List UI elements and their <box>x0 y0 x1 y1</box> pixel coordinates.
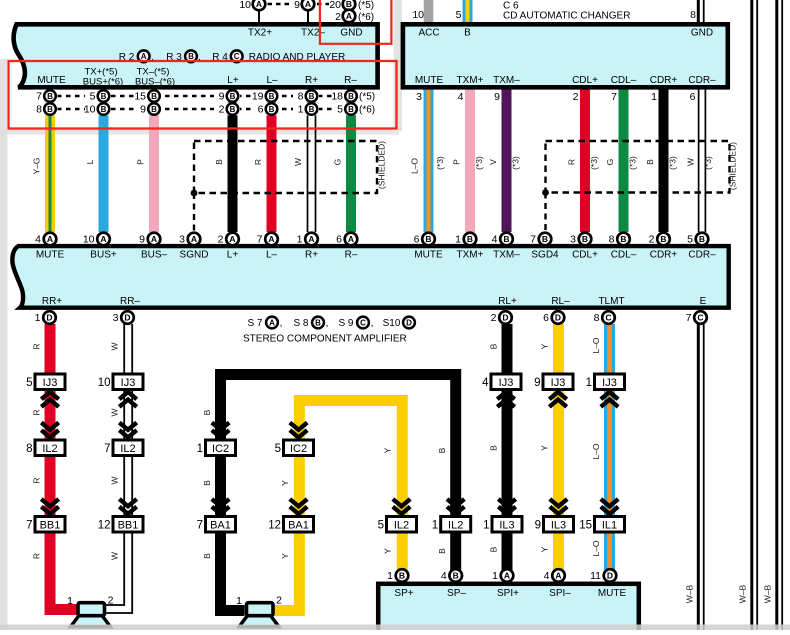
connector 15 IL1 <box>595 517 625 533</box>
svg-text:4: 4 <box>544 570 550 582</box>
svg-text:D: D <box>124 313 130 323</box>
svg-text:B: B <box>309 92 315 101</box>
svg-text:3: 3 <box>570 234 576 246</box>
wire B CDR+ <box>659 88 669 232</box>
junction arrows above row-C x401.5 <box>393 507 410 514</box>
svg-text:S 8: S 8 <box>293 318 308 329</box>
svg-text:1: 1 <box>586 377 592 389</box>
svg-text:D: D <box>406 318 412 327</box>
connector 10 IJ3 <box>113 374 143 390</box>
svg-text:1: 1 <box>67 595 73 607</box>
svg-text:C: C <box>697 313 703 323</box>
svg-text:Y–G: Y–G <box>32 157 42 174</box>
svg-text:A: A <box>256 0 262 9</box>
connector 4 IJ3 <box>491 374 521 390</box>
svg-text:2: 2 <box>573 91 579 103</box>
shielded cable box right <box>546 141 730 193</box>
svg-text:C: C <box>234 52 240 61</box>
svg-text:(*5): (*5) <box>359 92 375 103</box>
svg-text:B: B <box>346 0 352 9</box>
svg-text:P: P <box>452 159 462 165</box>
junction arrows above row-B x50 <box>41 430 58 437</box>
pin 15 B radio row1 x154 <box>136 90 162 103</box>
svg-text:IL3: IL3 <box>499 520 514 532</box>
svg-text:15: 15 <box>134 91 146 103</box>
svg-text:,: , <box>280 318 283 329</box>
svg-text:A: A <box>269 318 275 327</box>
svg-text:(SHIELDED): (SHIELDED) <box>377 141 387 189</box>
svg-text:1: 1 <box>651 91 657 103</box>
svg-text:B: B <box>202 480 212 486</box>
svg-text:B: B <box>489 343 499 349</box>
pin 18 B radio row1 x351 <box>333 90 359 103</box>
svg-text:E: E <box>700 296 707 307</box>
radio and player box <box>14 24 378 87</box>
svg-text:RR–: RR– <box>120 296 140 307</box>
connector 1 IL3 <box>492 517 522 533</box>
svg-text:B: B <box>188 52 194 61</box>
wire W-B from E <box>697 324 700 630</box>
svg-text:B: B <box>437 447 447 453</box>
svg-text:(*5): (*5) <box>358 0 374 11</box>
svg-text:9: 9 <box>535 520 541 532</box>
svg-text:20: 20 <box>329 0 341 11</box>
svg-text:A: A <box>100 234 106 244</box>
wire L-O MUTE cd to amp <box>424 88 434 232</box>
svg-text:L–O: L–O <box>410 158 420 174</box>
svg-text:8: 8 <box>690 9 696 21</box>
svg-text:10: 10 <box>98 377 111 389</box>
svg-text:D: D <box>607 571 613 581</box>
svg-text:C: C <box>360 318 366 327</box>
svg-text:9: 9 <box>139 234 145 246</box>
pin 9 B radio row2 x154 <box>136 103 162 116</box>
svg-text:IJ3: IJ3 <box>602 377 617 389</box>
svg-text:7: 7 <box>197 520 203 532</box>
svg-text:CDL+: CDL+ <box>572 249 598 260</box>
svg-text:B: B <box>269 92 275 101</box>
svg-text:CD AUTOMATIC CHANGER: CD AUTOMATIC CHANGER <box>503 10 630 21</box>
connector 5 IL2 <box>387 517 417 533</box>
svg-text:5: 5 <box>275 443 281 455</box>
svg-text:B: B <box>151 92 157 101</box>
svg-text:7: 7 <box>611 91 617 103</box>
connector 5 IJ3 <box>35 374 65 390</box>
svg-text:R+: R+ <box>305 249 318 260</box>
connector 7 BA1 <box>206 517 236 533</box>
svg-text:BUS–(*6): BUS–(*6) <box>135 77 175 88</box>
wire G CDL- <box>619 88 629 232</box>
svg-text:IL2: IL2 <box>120 443 135 455</box>
wire W R+ <box>307 88 309 232</box>
junction arrows below IJ3 x128 <box>119 392 136 399</box>
svg-text:10: 10 <box>83 234 95 246</box>
svg-text:B: B <box>582 234 588 244</box>
svg-text:2: 2 <box>219 104 225 116</box>
svg-text:R: R <box>32 553 42 559</box>
svg-text:IJ3: IJ3 <box>499 377 514 389</box>
svg-text:W: W <box>110 552 120 560</box>
svg-text:,: , <box>371 318 374 329</box>
svg-text:A: A <box>47 234 53 244</box>
svg-text:BA1: BA1 <box>288 520 309 532</box>
svg-text:L–O: L–O <box>591 443 601 459</box>
pin 5 B radio row1 x103.5 <box>85 90 111 103</box>
svg-text:B: B <box>453 571 459 581</box>
svg-text:IL2: IL2 <box>394 520 409 532</box>
svg-text:BA1: BA1 <box>210 520 231 532</box>
svg-text:B: B <box>542 234 548 244</box>
svg-text:B: B <box>47 92 53 101</box>
junction arrows above row-C x609.5 <box>601 507 618 514</box>
svg-text:9: 9 <box>294 0 300 11</box>
svg-text:L+: L+ <box>227 75 239 86</box>
svg-text:11: 11 <box>590 570 601 582</box>
highlight red box GND pins <box>320 0 392 44</box>
svg-text:SGND: SGND <box>180 249 209 260</box>
svg-text:8: 8 <box>36 104 42 116</box>
svg-text:9: 9 <box>534 377 540 389</box>
svg-text:D: D <box>46 313 52 323</box>
svg-text:B: B <box>214 159 224 165</box>
wire W-B GND top <box>697 0 700 22</box>
svg-text:Y: Y <box>280 553 290 559</box>
svg-text:BB1: BB1 <box>40 520 61 532</box>
svg-text:R+: R+ <box>305 75 318 86</box>
svg-text:12: 12 <box>98 520 111 532</box>
svg-text:B: B <box>620 234 626 244</box>
svg-text:S 7: S 7 <box>247 318 262 329</box>
wire R RR+ to speaker <box>50 324 78 610</box>
connector 12 BB1 <box>113 517 143 533</box>
svg-text:1: 1 <box>35 312 41 324</box>
svg-text:R: R <box>32 477 42 483</box>
svg-text:IC2: IC2 <box>212 443 229 455</box>
svg-text:1: 1 <box>387 570 393 582</box>
svg-text:L+: L+ <box>227 249 239 260</box>
svg-text:1: 1 <box>298 104 304 116</box>
svg-text:3: 3 <box>113 312 119 324</box>
wire TX2+ lead <box>258 10 260 23</box>
svg-text:B: B <box>489 546 499 552</box>
wire Y RL- to SPI- <box>553 324 564 570</box>
svg-text:A: A <box>555 571 561 581</box>
wire B SP- U-shape to speaker <box>221 375 456 611</box>
pin 9 B radio row1 x232.5 <box>214 90 240 103</box>
svg-text:B: B <box>464 28 471 39</box>
speaker front (SP) <box>239 616 279 627</box>
junction arrows above row-C x298.5 <box>290 507 307 514</box>
svg-text:IJ3: IJ3 <box>121 377 136 389</box>
svg-text:S 9: S 9 <box>338 318 353 329</box>
svg-text:7: 7 <box>686 312 692 324</box>
svg-text:1: 1 <box>455 234 461 246</box>
svg-text:B: B <box>467 234 473 244</box>
svg-text:D: D <box>555 313 561 323</box>
pin 6 B radio row2 x271.5 <box>253 103 279 116</box>
junction arrows above row-B x298.5 <box>290 430 307 437</box>
svg-text:TXM+: TXM+ <box>457 75 484 86</box>
svg-text:L–: L– <box>266 249 278 260</box>
svg-text:R: R <box>567 159 577 165</box>
wire TX2- lead <box>307 10 309 23</box>
svg-text:6: 6 <box>414 234 420 246</box>
connector 1 IC2 <box>206 440 236 456</box>
svg-text:1: 1 <box>297 234 303 246</box>
svg-text:7: 7 <box>530 234 536 246</box>
junction arrows below IJ3 x558 <box>549 392 566 399</box>
svg-text:7: 7 <box>36 91 42 103</box>
svg-text:8: 8 <box>26 443 32 455</box>
svg-text:10: 10 <box>84 104 96 116</box>
svg-text:2: 2 <box>218 234 224 246</box>
svg-text:B: B <box>503 234 509 244</box>
svg-text:7: 7 <box>257 234 263 246</box>
svg-text:Y: Y <box>540 546 550 552</box>
svg-text:L–: L– <box>266 75 278 86</box>
svg-text:5: 5 <box>90 91 96 103</box>
svg-text:GND: GND <box>691 28 713 39</box>
svg-text:B: B <box>348 105 354 114</box>
svg-text:12: 12 <box>268 520 281 532</box>
pin 10 B radio row2 x103.5 <box>85 103 111 116</box>
svg-text:8: 8 <box>609 234 615 246</box>
dashes radio pin row 2 <box>57 108 344 111</box>
svg-text:Y: Y <box>383 548 393 554</box>
wire B RL+ to SPI+ <box>502 324 513 570</box>
svg-text:2: 2 <box>649 234 655 246</box>
connector 7 IL2 <box>113 440 143 456</box>
svg-text:IL2: IL2 <box>42 443 57 455</box>
svg-text:9: 9 <box>494 91 500 103</box>
svg-text:SPI–: SPI– <box>549 588 571 599</box>
svg-text:(*3): (*3) <box>435 156 445 170</box>
svg-text:TX2–: TX2– <box>301 28 325 39</box>
svg-text:1: 1 <box>492 570 498 582</box>
svg-text:L–O: L–O <box>591 540 601 556</box>
svg-text:(*3): (*3) <box>474 156 484 170</box>
svg-text:B: B <box>399 571 405 581</box>
svg-text:A: A <box>346 11 352 21</box>
svg-text:BB1: BB1 <box>118 520 139 532</box>
svg-text:18: 18 <box>331 91 343 103</box>
svg-text:B: B <box>660 234 666 244</box>
svg-text:1: 1 <box>197 443 203 455</box>
pin 19 B radio row1 x271.5 <box>253 90 279 103</box>
svg-text:TLMT: TLMT <box>598 296 624 307</box>
svg-text:5: 5 <box>337 104 343 116</box>
svg-text:IJ3: IJ3 <box>43 377 58 389</box>
svg-text:P: P <box>136 159 146 165</box>
node shield junction right <box>542 189 549 196</box>
svg-text:IL3: IL3 <box>551 520 566 532</box>
wire Y SP+ U-shape to speaker <box>275 401 403 611</box>
svg-text:RR+: RR+ <box>42 296 62 307</box>
svg-text:G: G <box>605 159 615 166</box>
svg-text:5: 5 <box>26 377 32 389</box>
svg-text:BUS–: BUS– <box>141 249 168 260</box>
svg-text:B: B <box>645 159 655 165</box>
svg-text:IJ3: IJ3 <box>551 377 566 389</box>
svg-text:B: B <box>437 548 447 554</box>
dashes top row <box>268 3 292 6</box>
svg-text:A: A <box>305 0 311 9</box>
wire shield drain to SGND <box>193 193 195 231</box>
wire R CDL+ <box>580 88 590 232</box>
svg-text:B: B <box>489 445 499 451</box>
junction arrows above row-C x558.5 <box>550 507 567 514</box>
highlight red box radio pins <box>9 61 397 129</box>
svg-text:B: B <box>101 105 107 114</box>
svg-text:R: R <box>32 343 42 349</box>
svg-text:A: A <box>348 234 354 244</box>
svg-text:W: W <box>293 158 303 166</box>
wire W RR- to speaker <box>100 324 124 605</box>
svg-text:R–: R– <box>344 75 357 86</box>
svg-text:Y: Y <box>383 447 393 453</box>
junction arrows below IJ3 x609.5 <box>601 392 618 399</box>
wire shield drain to SGD4 <box>544 193 546 232</box>
svg-text:(*3): (*3) <box>589 156 599 170</box>
svg-text:(*3): (*3) <box>628 156 638 170</box>
svg-text:W: W <box>110 342 120 350</box>
svg-text:5: 5 <box>687 234 693 246</box>
svg-text:(SHIELDED): (SHIELDED) <box>728 142 738 190</box>
svg-text:4: 4 <box>441 570 447 582</box>
svg-text:SP–: SP– <box>447 588 466 599</box>
shielded cable box left <box>194 141 377 193</box>
svg-text:BUS+: BUS+ <box>90 249 117 260</box>
svg-text:B: B <box>348 92 354 101</box>
bottom radio SP box <box>378 584 639 635</box>
svg-text:5: 5 <box>378 520 384 532</box>
cd automatic changer box <box>403 24 728 87</box>
svg-text:7: 7 <box>26 520 32 532</box>
svg-text:(*6): (*6) <box>358 12 374 23</box>
svg-text:W–B: W–B <box>685 584 695 603</box>
svg-text:CDR+: CDR+ <box>650 249 678 260</box>
svg-text:8: 8 <box>298 91 304 103</box>
svg-text:B: B <box>151 105 157 114</box>
svg-text:R: R <box>32 409 42 415</box>
wire W CDR- <box>698 88 700 232</box>
svg-text:Y: Y <box>280 480 290 486</box>
svg-text:B: B <box>269 105 275 114</box>
svg-text:10: 10 <box>239 0 251 11</box>
svg-text:A: A <box>268 234 274 244</box>
svg-text:7: 7 <box>104 443 110 455</box>
svg-text:B: B <box>47 105 53 114</box>
svg-text:L: L <box>85 159 95 164</box>
svg-text:CDR+: CDR+ <box>650 75 678 86</box>
svg-text:B: B <box>230 92 236 101</box>
svg-text:TXM–: TXM– <box>493 75 520 86</box>
connector 7 BB1 <box>35 517 65 533</box>
svg-text:SP+: SP+ <box>394 588 413 599</box>
wire R L- <box>267 88 277 232</box>
svg-text:SGD4: SGD4 <box>531 249 559 260</box>
svg-text:(*3): (*3) <box>703 156 713 170</box>
svg-text:TX2+: TX2+ <box>248 28 272 39</box>
svg-text:L–O: L–O <box>591 337 601 353</box>
svg-text:A: A <box>229 234 235 244</box>
connector 1 IL2 <box>441 517 471 533</box>
svg-text:S10: S10 <box>383 318 401 329</box>
junction arrows above row-C x128 <box>119 507 136 514</box>
svg-text:3: 3 <box>179 234 185 246</box>
wire B L+ <box>228 88 238 232</box>
svg-text:9: 9 <box>140 104 146 116</box>
svg-text:W: W <box>686 158 696 166</box>
svg-text:GND: GND <box>340 28 362 39</box>
junction arrows below IJ3 x506 <box>497 392 514 399</box>
wire L BUS+ <box>99 88 109 232</box>
svg-text:(*3): (*3) <box>668 156 678 170</box>
svg-text:15: 15 <box>579 520 592 532</box>
wire P BUS- <box>149 88 159 232</box>
svg-text:MUTE: MUTE <box>415 75 444 86</box>
svg-text:,: , <box>326 318 329 329</box>
connector 5 IC2 <box>284 440 314 456</box>
svg-text:R: R <box>253 159 263 165</box>
svg-text:W–B: W–B <box>763 584 773 603</box>
pin 7 B radio row1 x50 <box>32 90 58 103</box>
svg-text:IL2: IL2 <box>448 520 463 532</box>
svg-text:MUTE: MUTE <box>36 249 65 260</box>
stereo component amplifier box <box>12 246 728 308</box>
connector 1 IJ3 <box>595 374 625 390</box>
dashes radio pin row 1 <box>57 95 344 98</box>
svg-text:C: C <box>605 313 611 323</box>
svg-text:ACC: ACC <box>418 28 439 39</box>
wire W-B vertical 3 <box>775 0 778 630</box>
svg-text:CDR–: CDR– <box>688 249 716 260</box>
svg-text:STEREO COMPONENT AMPLIFIER: STEREO COMPONENT AMPLIFIER <box>243 334 407 345</box>
junction arrows above row-C x50 <box>41 507 58 514</box>
svg-text:9: 9 <box>219 91 225 103</box>
svg-text:CDL+: CDL+ <box>572 75 598 86</box>
svg-text:10: 10 <box>412 9 424 21</box>
node shield junction left <box>191 190 198 197</box>
svg-text:Y: Y <box>540 445 550 451</box>
svg-text:W: W <box>110 476 120 484</box>
svg-text:TXM–: TXM– <box>493 249 520 260</box>
svg-text:IL1: IL1 <box>602 520 617 532</box>
svg-text:MUTE: MUTE <box>598 588 627 599</box>
connector 9 IJ3 <box>543 374 573 390</box>
svg-text:5: 5 <box>456 9 462 21</box>
svg-text:A: A <box>504 571 510 581</box>
svg-text:B: B <box>230 105 236 114</box>
svg-text:(*3): (*3) <box>511 156 521 170</box>
svg-text:CDL–: CDL– <box>611 75 637 86</box>
wire L-Y pin B <box>463 0 473 22</box>
wire V TXM- <box>502 88 512 232</box>
junction arrows above row-C x220.5 <box>212 507 229 514</box>
wire G R- <box>346 88 356 232</box>
pin 5 B radio row2 x351 <box>333 103 359 116</box>
svg-text:2: 2 <box>108 595 114 607</box>
pin 2 B radio row2 x232.5 <box>214 103 240 116</box>
junction arrows above row-B x220.5 <box>212 430 229 437</box>
svg-text:A: A <box>308 234 314 244</box>
svg-text:A: A <box>191 234 197 244</box>
wire Y-G MUTE radio to amp <box>45 88 55 232</box>
svg-text:B: B <box>315 318 321 327</box>
svg-text:1: 1 <box>432 520 438 532</box>
svg-text:SPI+: SPI+ <box>497 588 519 599</box>
svg-text:G: G <box>333 159 343 166</box>
